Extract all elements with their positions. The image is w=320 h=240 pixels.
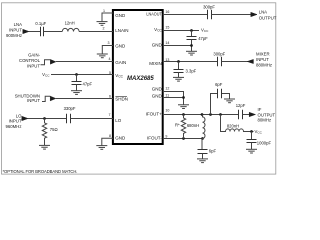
wire shutdown flag to pin6 (56, 98, 113, 100)
pin 13 MIXIN (149, 58, 169, 66)
svg-text:75Ω: 75Ω (50, 127, 58, 132)
op-amp U1 MAX2685 IC body (113, 10, 163, 144)
wire LO input to C2 (28, 118, 66, 120)
svg-text:80MHz: 80MHz (258, 118, 272, 123)
node MIXER INPUT label (256, 52, 272, 68)
pin 4 GAIN (109, 57, 127, 65)
node IF OUTPUT label (258, 107, 276, 123)
svg-text:GND: GND (152, 87, 163, 92)
svg-text:INPUT: INPUT (256, 57, 269, 62)
svg-text:IF: IF (258, 107, 262, 112)
pin 7 LO (109, 113, 122, 123)
svg-text:LNAIN: LNAIN (115, 28, 128, 33)
svg-text:INPUT: INPUT (27, 98, 40, 103)
wire pin15 to VCC (163, 30, 199, 32)
pin 8 GND (109, 134, 126, 141)
pin 10 IFOUT+ (146, 109, 170, 117)
ground (197, 159, 208, 163)
svg-text:12pF: 12pF (236, 103, 246, 108)
node junction 820nH drop (219, 113, 222, 116)
node LO INPUT label (5, 114, 22, 129)
pin 6 SHDN (109, 94, 128, 101)
inductor 820nH with VCC feed (221, 115, 254, 132)
svg-text:6pF: 6pF (209, 148, 217, 153)
svg-text:MAX2685: MAX2685 (127, 76, 154, 82)
wire IF line pin10 to C8 (163, 114, 239, 116)
svg-text:IFOUT-: IFOUT- (147, 136, 162, 141)
pin 3 GND (108, 41, 127, 49)
svg-text:*OPTIONAL FOR BROADBAND MATCH.: *OPTIONAL FOR BROADBAND MATCH. (3, 169, 78, 174)
capacitor 0.1uF (35, 21, 46, 36)
svg-text:IFOUT+: IFOUT+ (146, 111, 162, 116)
wire LNA input to C1 (29, 31, 41, 33)
svg-text:330pF: 330pF (64, 106, 76, 111)
pin 12 GND (152, 87, 170, 92)
svg-text:14: 14 (165, 41, 169, 45)
svg-text:960MHz: 960MHz (5, 124, 21, 129)
svg-text:3.3pF: 3.3pF (186, 68, 197, 73)
node junction 6pF riser (209, 113, 212, 116)
capacitor 300pF mixer (213, 51, 225, 66)
svg-text:MIXER: MIXER (256, 52, 270, 57)
wire pin3 to ground (102, 46, 113, 55)
svg-text:15: 15 (165, 25, 169, 29)
node gain control input flag (41, 59, 57, 64)
svg-text:VCC: VCC (115, 73, 123, 79)
resistor 75 ohm (42, 119, 57, 146)
svg-text:VCC: VCC (154, 27, 162, 33)
node junction (177, 60, 180, 63)
wire C1 to L1 (44, 31, 63, 33)
ground (71, 91, 82, 95)
wire L1 to pin2 (79, 31, 113, 33)
capacitor 6pF top with ground (211, 82, 230, 115)
svg-text:SHDN: SHDN (115, 96, 128, 101)
node LNA OUTPUT label (259, 10, 277, 21)
ground (186, 51, 197, 55)
node LNA INPUT label (6, 22, 22, 38)
svg-text:47pF: 47pF (83, 82, 93, 87)
node junction (190, 29, 193, 32)
node junction L2 bottom (201, 137, 204, 140)
wire pin8 to ground (102, 138, 113, 145)
inductor 12nH (62, 21, 79, 32)
node junction R* bottom (182, 137, 185, 140)
wire pin13 to C5 (163, 61, 218, 63)
node junction (75, 73, 78, 76)
node junction L2 top (201, 113, 204, 116)
svg-text:R*: R* (175, 123, 180, 128)
wire VCC to pin5 (51, 74, 113, 76)
svg-text:VCC: VCC (201, 28, 209, 34)
wire C8 to IF output (243, 114, 250, 116)
svg-text:0.1µF: 0.1µF (35, 21, 46, 26)
node junction (43, 117, 46, 120)
node LNA input arrow (23, 29, 29, 33)
resistor R* (175, 115, 186, 139)
node mixer input arrow (247, 59, 253, 63)
pin 16 LNAOUT (146, 10, 169, 16)
node junction R* top (182, 113, 185, 116)
svg-text:3: 3 (108, 41, 110, 45)
inductor 680nH (187, 115, 205, 139)
svg-text:VCC: VCC (42, 72, 50, 78)
node SHUTDOWN INPUT label (15, 94, 41, 103)
svg-text:300pF: 300pF (213, 51, 225, 56)
svg-text:10: 10 (165, 109, 169, 113)
pin 9 IFOUT- (147, 134, 167, 140)
ground (173, 77, 184, 81)
node LO input arrow (22, 116, 28, 120)
ground (97, 22, 108, 26)
svg-text:880MHz: 880MHz (256, 63, 272, 68)
node junction (190, 44, 193, 47)
ground (224, 99, 235, 103)
svg-text:8: 8 (109, 134, 111, 138)
capacitor 300pF top (203, 4, 215, 19)
pin 5 VCC (109, 71, 124, 79)
ground (39, 145, 50, 149)
svg-text:LNAOUT: LNAOUT (146, 11, 162, 16)
svg-text:6pF: 6pF (215, 82, 223, 87)
svg-text:2: 2 (103, 27, 105, 31)
svg-text:GND: GND (115, 13, 126, 18)
svg-text:LNA: LNA (259, 10, 267, 15)
wire C5 to mixer input (222, 61, 254, 63)
wire C3 to LNA output (212, 14, 251, 16)
wire gain flag to pin4 (56, 61, 113, 63)
pin 14 GND (152, 41, 170, 47)
ground (246, 149, 257, 153)
svg-text:VCC: VCC (255, 129, 263, 135)
node IF output arrow (249, 112, 255, 116)
svg-text:7: 7 (109, 113, 111, 117)
capacitor 330pF (64, 106, 76, 123)
svg-text:LNA: LNA (14, 22, 22, 27)
svg-text:1: 1 (103, 9, 105, 13)
pin 1 GND (103, 9, 126, 18)
svg-text:12nH: 12nH (65, 21, 75, 26)
svg-text:GND: GND (115, 136, 126, 141)
svg-text:6: 6 (109, 94, 111, 98)
svg-text:300pF: 300pF (203, 4, 215, 9)
svg-text:GAIN-: GAIN- (28, 53, 41, 58)
capacitor 3.3pF (174, 62, 197, 78)
pin 2 LNAIN (103, 27, 129, 33)
svg-text:16: 16 (165, 10, 169, 14)
wire pins 12,11 to ground (163, 92, 184, 105)
svg-text:OUTPUT: OUTPUT (259, 15, 277, 20)
node junction (182, 96, 185, 99)
svg-text:820nH: 820nH (227, 124, 239, 129)
pin 11 GND (152, 94, 169, 99)
capacitor 47pF left (72, 75, 93, 91)
capacitor 12pF (236, 103, 246, 119)
svg-text:900MHz: 900MHz (6, 33, 22, 38)
node shutdown input flag (42, 96, 56, 101)
svg-text:1000pF: 1000pF (257, 140, 272, 145)
capacitor 47pF right (187, 31, 209, 46)
svg-text:CONTROL: CONTROL (19, 58, 41, 63)
pin 15 VCC (154, 25, 169, 32)
svg-text:GND: GND (115, 44, 126, 49)
svg-text:INPUT: INPUT (9, 28, 22, 33)
svg-text:12: 12 (165, 87, 169, 91)
ground (97, 54, 108, 58)
svg-text:MIXIN: MIXIN (149, 61, 162, 66)
node junction (250, 130, 253, 133)
svg-text:GAIN: GAIN (115, 60, 126, 65)
ground (178, 105, 189, 109)
wire pin1 to ground (102, 13, 113, 22)
svg-text:9: 9 (165, 134, 167, 138)
svg-text:GND: GND (152, 43, 163, 48)
svg-text:47pF: 47pF (198, 36, 208, 41)
svg-text:4: 4 (109, 57, 111, 61)
wire pin9 row (163, 138, 202, 140)
ground (96, 146, 107, 150)
capacitor 1000pF (247, 132, 272, 150)
wire pin16 to C3 (163, 14, 208, 16)
capacitor 6pF bottom (198, 138, 217, 159)
svg-text:LO: LO (115, 118, 122, 123)
wire pin14 to ground (163, 46, 192, 52)
svg-text:GND: GND (152, 94, 163, 99)
svg-text:680nH: 680nH (187, 123, 199, 128)
node LNA output arrow (251, 12, 257, 16)
wire C2 to pin7 (71, 118, 113, 120)
svg-text:INPUT: INPUT (27, 64, 40, 69)
node GAIN-CONTROL INPUT label (19, 53, 41, 69)
